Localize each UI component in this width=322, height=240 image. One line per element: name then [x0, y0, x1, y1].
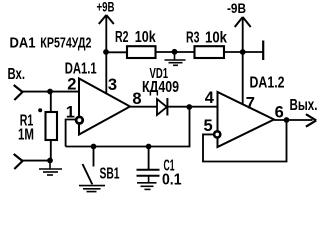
resistor R3 — [195, 46, 225, 58]
svg-text:4: 4 — [205, 89, 215, 107]
wire -9V vertical to pin 7 — [242, 17, 244, 105]
svg-text:6: 6 — [275, 103, 284, 121]
pin 5 circle — [214, 131, 220, 137]
svg-text:+9В: +9В — [97, 0, 115, 15]
node input/R1 junction — [47, 89, 53, 95]
op-amp DA1.1 — [79, 79, 130, 135]
wire R2 to mid ground node — [156, 51, 175, 53]
svg-text:R2: R2 — [115, 29, 129, 46]
capacitor C1 — [148, 147, 150, 170]
node mid junction — [172, 49, 178, 55]
node C1 junction — [146, 144, 152, 150]
node R1 bottom junction — [47, 158, 53, 164]
wire diode to DA1.2 pin 4 — [167, 106, 217, 108]
ground (SB1) — [79, 186, 105, 192]
svg-text:5: 5 — [204, 117, 213, 135]
node SB1 junction — [91, 144, 97, 150]
wire R3 to -9V node — [224, 51, 243, 53]
output arrow chevron — [306, 114, 316, 127]
svg-text:0.1: 0.1 — [162, 172, 182, 189]
wire DA1.2 output — [274, 119, 313, 121]
svg-text:DA1: DA1 — [10, 35, 36, 52]
wire DA1.1 output to diode — [130, 106, 157, 108]
svg-text:DA1.2: DA1.2 — [250, 75, 285, 92]
wire pin5 feedback loop — [203, 120, 287, 162]
svg-text:КД409: КД409 — [142, 79, 179, 96]
node +9V junction — [103, 49, 109, 55]
svg-text:-9В: -9В — [227, 0, 246, 16]
svg-text:10k: 10k — [205, 30, 227, 47]
svg-text:8: 8 — [132, 90, 141, 108]
+9V arrow symbol — [99, 15, 114, 24]
op-amp DA1.2 — [218, 92, 275, 147]
ground (between R2 and R3) — [165, 52, 186, 65]
asterisk select-mark for R1 — [38, 108, 42, 112]
wire bottom input to R1 bottom — [23, 160, 51, 162]
input arrow chevron — [14, 85, 23, 100]
wire mid node to R3 — [175, 51, 195, 53]
wire +9V to R2 — [106, 51, 127, 53]
resistor R1 — [50, 92, 52, 113]
pin 1 circle — [76, 117, 83, 124]
terminal bar — [262, 41, 264, 61]
ground (input) — [39, 161, 62, 176]
wire -9V to terminal bar — [243, 51, 263, 53]
svg-text:1М: 1М — [18, 127, 34, 144]
node output junction — [284, 117, 290, 123]
wire bottom feedback run — [66, 107, 190, 146]
svg-text:Вх.: Вх. — [8, 66, 26, 83]
svg-text:SB1: SB1 — [100, 165, 120, 182]
svg-text:2: 2 — [67, 76, 76, 94]
node VD1/feedback junction — [186, 104, 192, 110]
wire +9V vertical to pin 3 — [105, 15, 107, 93]
ground (C1) — [137, 176, 157, 190]
node -9V junction — [240, 49, 246, 55]
svg-text:7: 7 — [246, 95, 255, 113]
resistor R2 — [127, 46, 156, 58]
diode VD1 — [157, 99, 167, 115]
svg-text:R3: R3 — [186, 30, 200, 47]
input 2 arrow chevron (bottom) — [14, 154, 23, 169]
wire pin1 to feedback bottom — [66, 120, 77, 147]
switch SB1 — [93, 147, 95, 167]
svg-text:Вых.: Вых. — [290, 97, 318, 114]
wire input to pin 2 — [23, 91, 80, 93]
svg-text:3: 3 — [108, 76, 117, 94]
svg-text:10k: 10k — [135, 29, 156, 46]
-9V arrow symbol — [235, 17, 251, 27]
svg-text:КР574УД2: КР574УД2 — [40, 35, 91, 52]
